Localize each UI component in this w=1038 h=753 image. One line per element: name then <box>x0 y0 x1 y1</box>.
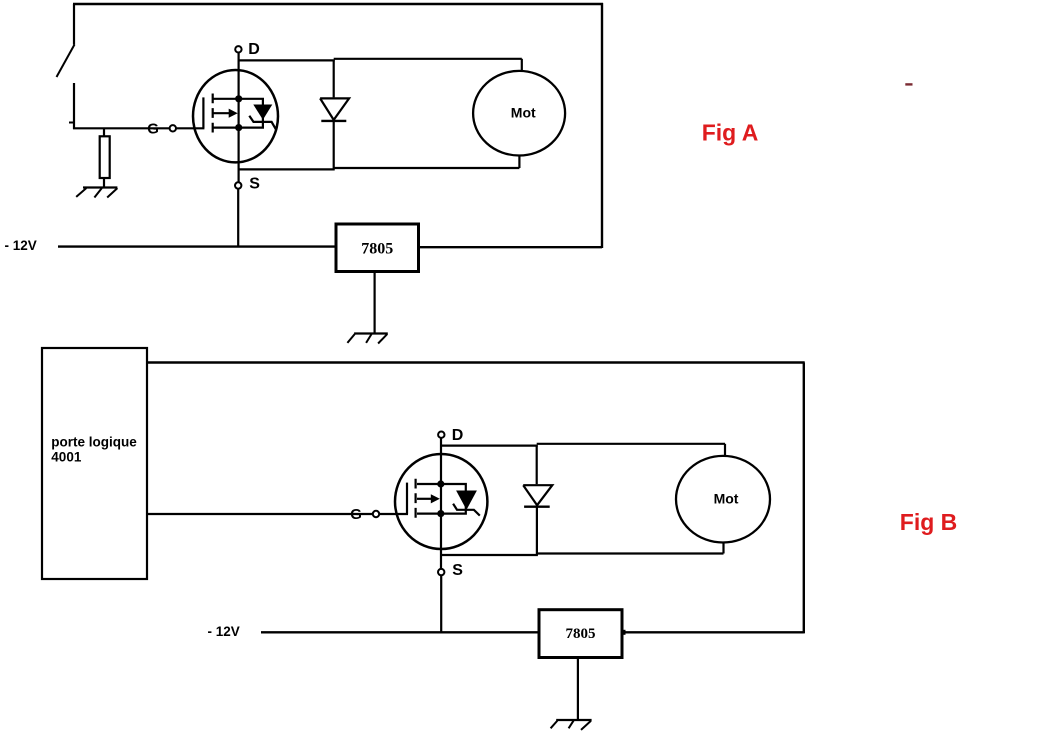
svg-text:G: G <box>350 506 362 523</box>
svg-text:D: D <box>248 41 260 58</box>
svg-text:porte logique: porte logique <box>51 435 137 450</box>
svg-text:Mot: Mot <box>511 104 536 120</box>
svg-text:G: G <box>147 120 159 137</box>
svg-text:S: S <box>249 175 260 192</box>
svg-text:S: S <box>452 562 463 579</box>
svg-text:7805: 7805 <box>566 626 596 642</box>
svg-text:7805: 7805 <box>361 240 393 257</box>
svg-text:Fig B: Fig B <box>900 509 958 535</box>
svg-text:Mot: Mot <box>714 491 739 507</box>
svg-text:Fig A: Fig A <box>702 119 759 145</box>
svg-text:- 12V: - 12V <box>5 238 37 253</box>
svg-text:- 12V: - 12V <box>208 624 240 639</box>
svg-text:D: D <box>452 427 464 444</box>
svg-text:4001: 4001 <box>51 450 82 465</box>
